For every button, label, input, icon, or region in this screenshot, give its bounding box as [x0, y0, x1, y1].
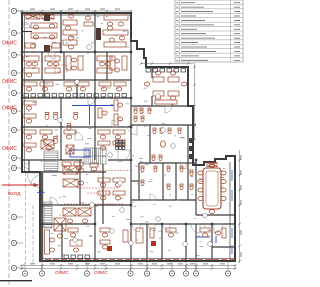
svg-text:ОФИС: ОФИС [2, 105, 17, 111]
svg-text:ОФИС: ОФИС [2, 79, 17, 85]
svg-text:ОФИС: ОФИС [94, 270, 108, 275]
svg-text:ОФИС: ОФИС [55, 270, 69, 275]
svg-text:ВХОД: ВХОД [8, 191, 21, 196]
svg-text:ОФИС: ОФИС [2, 146, 17, 152]
svg-text:ОФИС: ОФИС [2, 40, 17, 46]
